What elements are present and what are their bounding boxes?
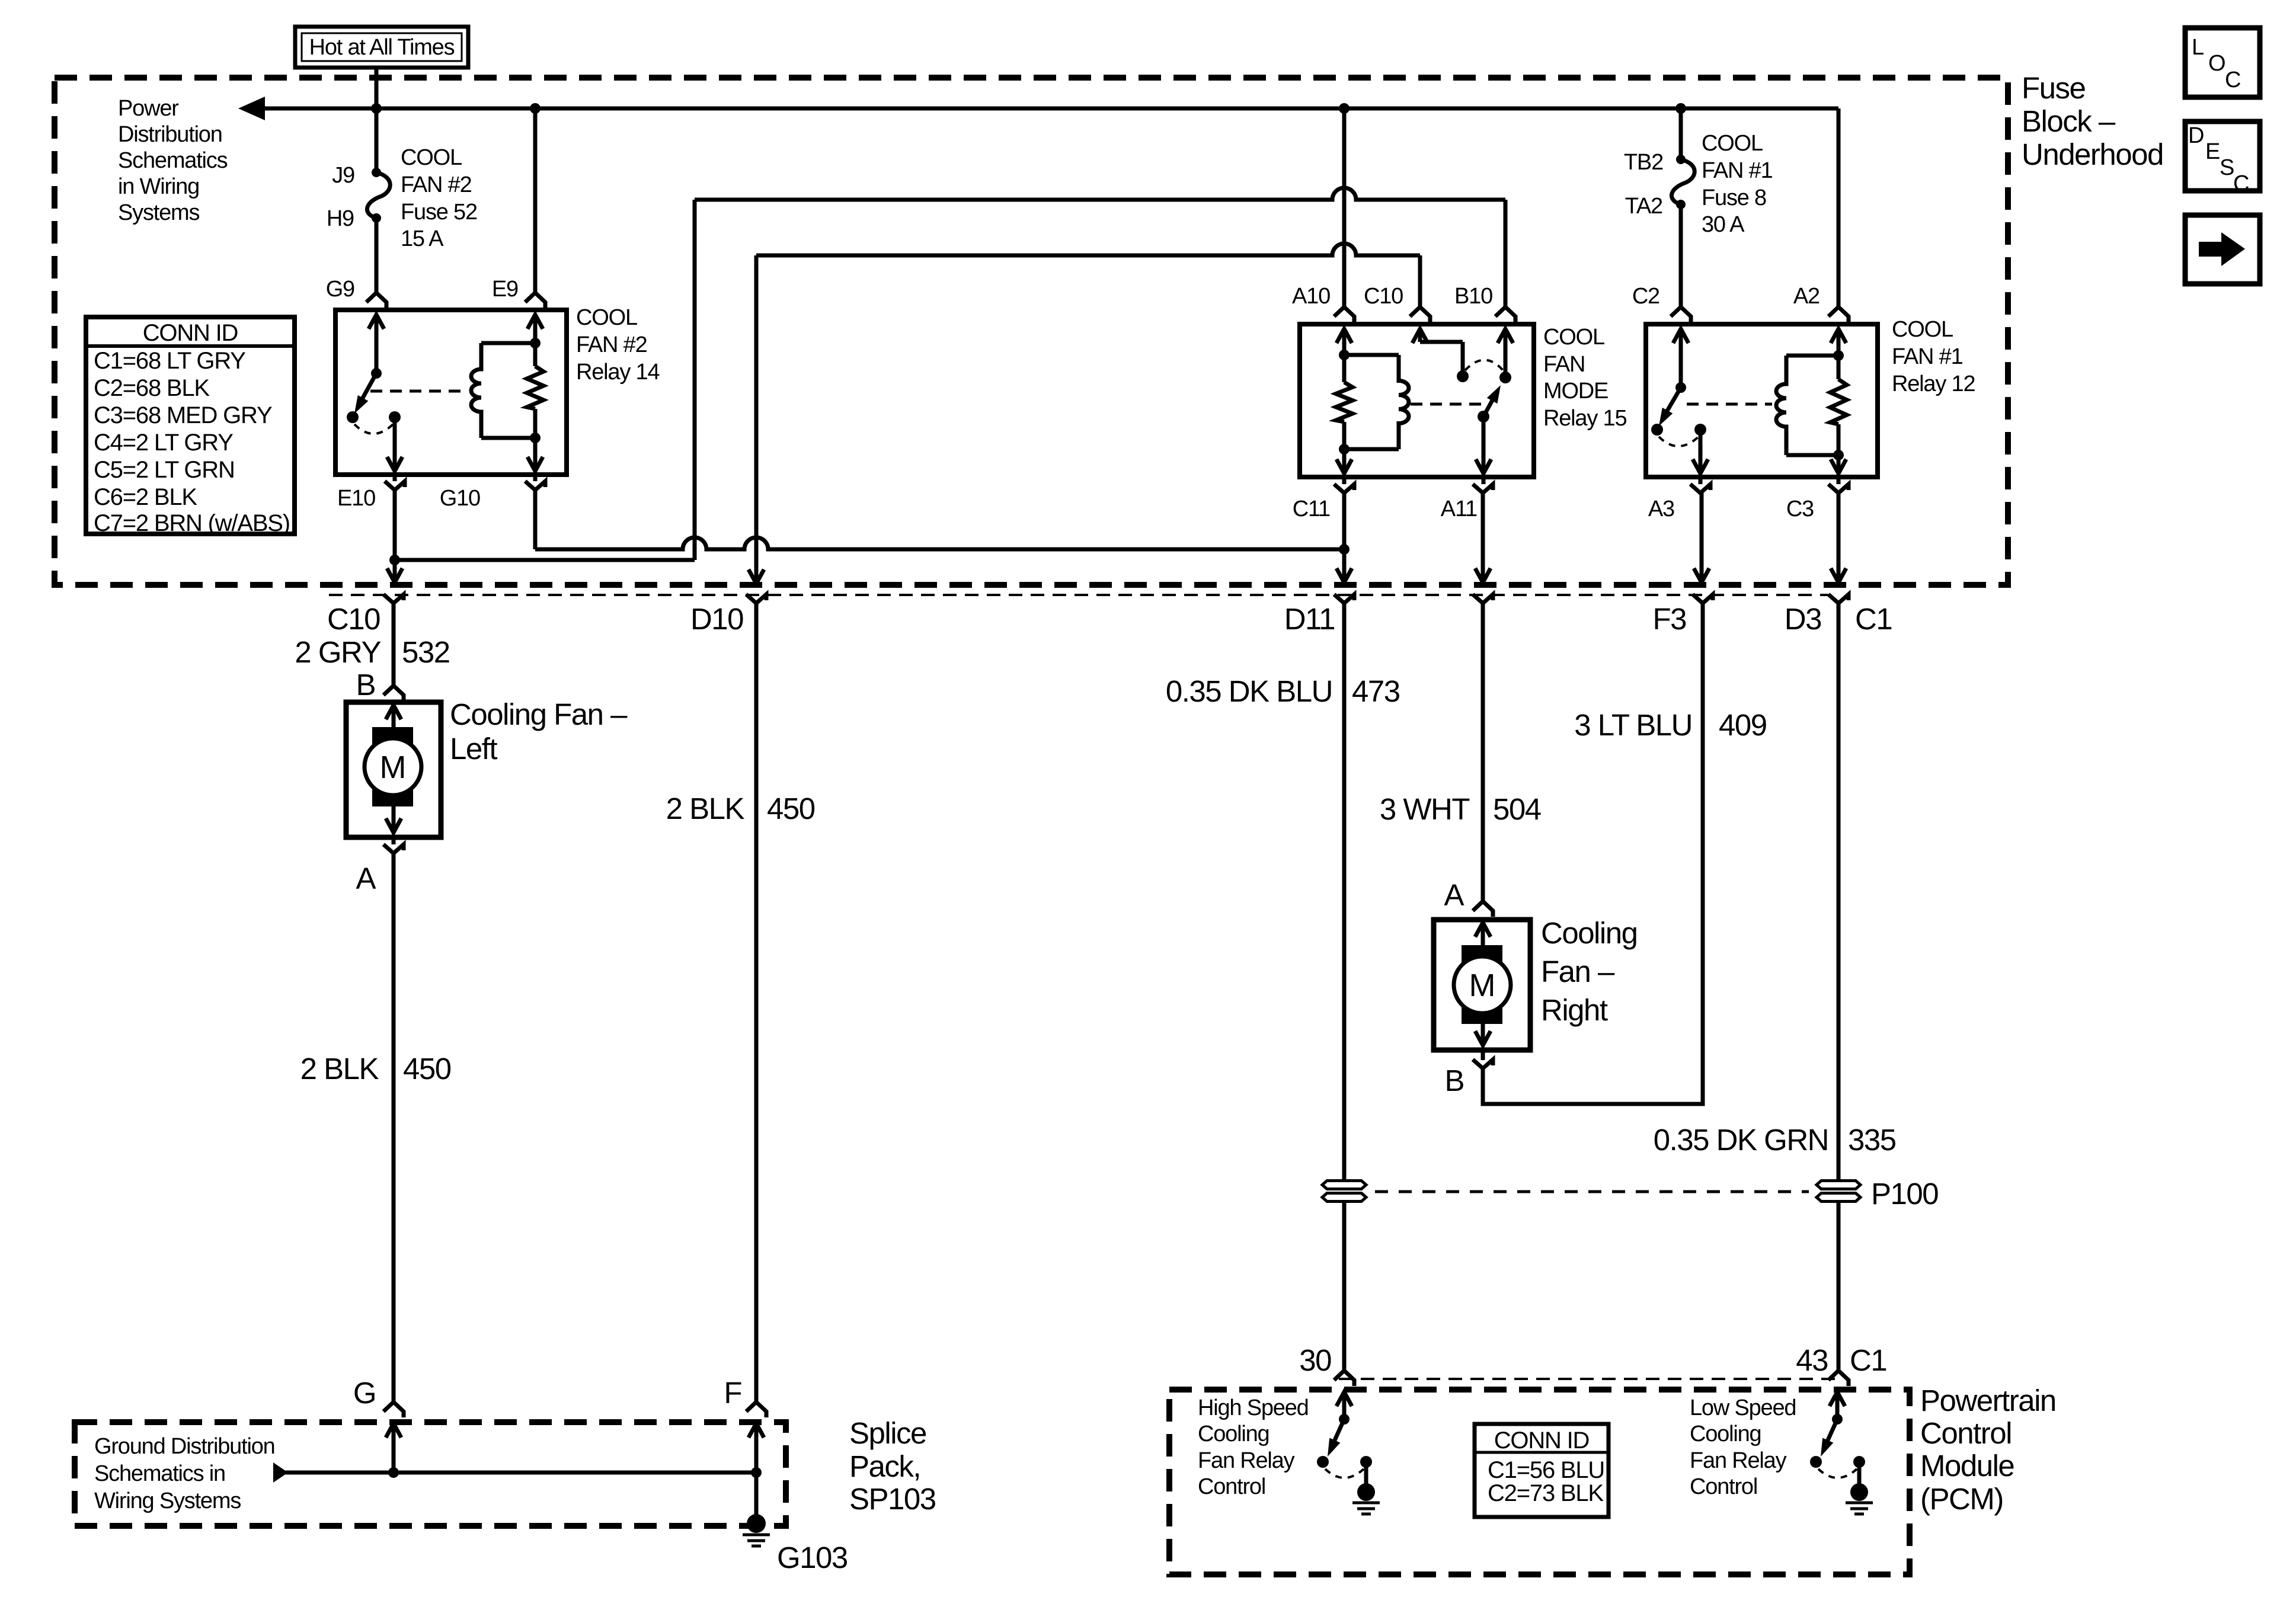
svg-text:Wiring Systems: Wiring Systems	[94, 1489, 241, 1513]
svg-text:C11: C11	[1293, 497, 1330, 521]
relay K15 coil bars	[1344, 353, 1399, 357]
svg-text:C1=68 LT GRY: C1=68 LT GRY	[94, 348, 245, 374]
pin G9 chevron	[366, 293, 386, 308]
pin A10 chevron	[1334, 307, 1354, 322]
pin D11 chevron	[1334, 594, 1354, 603]
svg-text:Distribution: Distribution	[118, 122, 222, 147]
wire: D3/C1 to P100	[1837, 603, 1841, 1181]
wire: rail drop to A2	[1837, 108, 1841, 306]
motor M2 body	[1454, 956, 1511, 1013]
relay K15 A10 arm	[1342, 333, 1347, 382]
pin A chevron (fan right)	[1473, 901, 1493, 917]
wire: fan right B loop to F3	[1483, 603, 1703, 1104]
svg-text:15 A: 15 A	[401, 226, 444, 251]
relay K12 switch common arm	[1679, 333, 1683, 388]
svg-text:G10: G10	[440, 486, 480, 511]
svg-text:Cooling: Cooling	[1541, 916, 1637, 950]
relay K15 switch throw arc	[1465, 360, 1503, 371]
PCM high speed ground	[1364, 1462, 1368, 1484]
wire: C3 drop	[1837, 493, 1841, 582]
svg-text:SP103: SP103	[849, 1482, 936, 1516]
relay K12 coil-switch link	[1687, 403, 1772, 406]
relay K12 C3 arm	[1837, 424, 1841, 470]
LOC reference box	[2185, 28, 2260, 97]
svg-text:FAN #2: FAN #2	[401, 172, 472, 197]
motor M1 brush blocks	[372, 727, 413, 745]
svg-text:A: A	[356, 862, 376, 895]
svg-text:Splice: Splice	[849, 1416, 926, 1450]
pin 30 chevron	[1334, 1371, 1354, 1386]
pin E9 chevron	[525, 293, 545, 308]
svg-text:M: M	[1469, 968, 1496, 1003]
CONN ID table box	[86, 317, 295, 534]
svg-text:Fan –: Fan –	[1541, 955, 1615, 988]
connector P100 (left half)	[1322, 1181, 1366, 1189]
relay K15 switch common arm	[1504, 333, 1508, 377]
motor M2 top lead	[1481, 925, 1485, 945]
wire: riser to B10 run	[693, 200, 697, 560]
svg-text:0.35 DK GRN: 0.35 DK GRN	[1654, 1123, 1828, 1157]
svg-text:Schematics in: Schematics in	[94, 1461, 225, 1486]
svg-text:G: G	[353, 1376, 376, 1410]
svg-text:MODE: MODE	[1543, 379, 1608, 404]
fuse F8 "COOL FAN #1 Fuse 8 30 A"	[1676, 155, 1686, 164]
relay K14 switch throw arc	[354, 424, 393, 434]
pin A2 chevron	[1828, 307, 1849, 322]
svg-text:COOL: COOL	[576, 305, 637, 330]
wire: C10 run east (hops A10 feed)	[756, 244, 1420, 255]
svg-text:D11: D11	[1284, 602, 1335, 636]
svg-text:Relay 14: Relay 14	[576, 360, 660, 385]
svg-text:A10: A10	[1292, 284, 1330, 309]
relay K12 box "COOL FAN #1 Relay 12"	[1646, 324, 1878, 477]
relay K12 switch arm to NC	[1662, 388, 1681, 419]
svg-text:High Speed: High Speed	[1198, 1395, 1309, 1420]
node: E9 branch junction	[530, 103, 541, 114]
wire: B10 drop	[1504, 200, 1508, 306]
motor M1 bottom lead	[392, 806, 396, 833]
node: splice F junction	[751, 1467, 762, 1478]
relay K15 A11 arm	[1482, 417, 1486, 470]
relay K12 A2 arm	[1837, 333, 1841, 379]
PCM conn id table	[1475, 1424, 1609, 1517]
svg-text:C7=2 BRN (w/ABS): C7=2 BRN (w/ABS)	[94, 510, 290, 536]
svg-text:COOL: COOL	[1892, 317, 1953, 342]
svg-text:3 WHT: 3 WHT	[1380, 792, 1470, 826]
relay K14 switch common arm	[375, 319, 379, 373]
relay K14 switch NO contact	[389, 411, 401, 423]
svg-text:Cooling: Cooling	[1690, 1422, 1761, 1446]
pin A11 harness chevron	[1473, 594, 1493, 603]
wire: C10 drop	[1418, 255, 1422, 306]
svg-text:J9: J9	[332, 163, 354, 188]
svg-text:Cooling Fan –: Cooling Fan –	[450, 697, 628, 731]
pin B chevron (fan right)	[1473, 1060, 1493, 1068]
wire: D11 to P100	[1342, 603, 1347, 1181]
relay K15 C11 arm	[1342, 422, 1347, 470]
pin C2 chevron	[1671, 307, 1691, 322]
PCM dashed box	[1169, 1390, 1910, 1574]
svg-text:O: O	[2208, 51, 2226, 76]
wire: splice bus	[273, 1471, 756, 1475]
pin D10 chevron	[746, 594, 766, 603]
wire: A10 feed (hops handled on runs)	[1342, 108, 1347, 306]
svg-text:2 GRY: 2 GRY	[295, 635, 380, 669]
svg-text:3 LT BLU: 3 LT BLU	[1574, 708, 1692, 742]
svg-text:C10: C10	[1364, 284, 1403, 309]
ground G103	[747, 1514, 766, 1533]
svg-text:Ground Distribution: Ground Distribution	[94, 1434, 275, 1459]
svg-text:Power: Power	[118, 96, 179, 121]
wire: B10 run east (hops A10 feed)	[695, 188, 1505, 200]
pin E10 chevron	[385, 481, 405, 490]
svg-text:A2: A2	[1793, 284, 1819, 309]
svg-text:C5=2 LT GRN: C5=2 LT GRN	[94, 457, 235, 483]
svg-text:30 A: 30 A	[1702, 212, 1745, 237]
svg-text:E: E	[2205, 139, 2220, 164]
svg-text:C10: C10	[327, 602, 380, 636]
svg-text:FAN: FAN	[1543, 352, 1585, 377]
svg-text:D: D	[2188, 123, 2204, 148]
svg-text:S: S	[2220, 155, 2234, 180]
wire: fuse 52 to G9	[375, 218, 379, 292]
svg-text:473: 473	[1352, 674, 1400, 708]
wire: P100 to PCM 43	[1837, 1202, 1841, 1371]
svg-text:FAN #1: FAN #1	[1702, 158, 1773, 183]
motor M2 brush blocks	[1462, 945, 1502, 964]
svg-text:D3: D3	[1785, 602, 1821, 636]
svg-text:M: M	[380, 750, 407, 785]
wire: rail to fuse 8	[1679, 108, 1683, 159]
wire: rail to fuse 52	[375, 108, 379, 172]
svg-text:COOL: COOL	[401, 145, 462, 170]
pin G10 chevron	[525, 481, 545, 490]
wire: E10 junction east run	[395, 558, 695, 562]
pin A11 chevron	[1473, 484, 1493, 493]
wire: rail to E9	[533, 108, 538, 292]
svg-text:G9: G9	[326, 277, 354, 302]
PCM low speed switch	[1835, 1394, 1840, 1419]
relay K15 box "COOL FAN MODE Relay 15"	[1300, 324, 1534, 477]
svg-text:P100: P100	[1871, 1177, 1938, 1211]
svg-text:FAN #2: FAN #2	[576, 332, 647, 357]
svg-text:B: B	[1444, 1064, 1464, 1097]
pin F chevron (splice)	[746, 1402, 766, 1417]
motor M1 box "Cooling Fan - Left"	[346, 702, 441, 837]
svg-text:A11: A11	[1441, 497, 1477, 521]
node: TB2 branch junction	[1675, 103, 1686, 114]
svg-text:CONN ID: CONN ID	[143, 320, 238, 346]
relay K12 output arm	[1699, 430, 1703, 470]
svg-text:TA2: TA2	[1625, 194, 1662, 219]
wire: G10 down/east run (hops risers)	[533, 490, 538, 549]
svg-text:30: 30	[1299, 1343, 1331, 1377]
pin A chevron (fan left)	[383, 844, 404, 853]
svg-text:Underhood: Underhood	[2022, 137, 2163, 171]
svg-text:C: C	[2233, 171, 2249, 196]
svg-text:Relay 12: Relay 12	[1892, 372, 1975, 396]
relay K15 C10 contact arm	[1418, 333, 1422, 342]
svg-text:0.35 DK BLU: 0.35 DK BLU	[1166, 674, 1332, 708]
svg-text:C6=2 BLK: C6=2 BLK	[94, 484, 197, 510]
pin F3 chevron	[1693, 594, 1713, 603]
svg-text:COOL: COOL	[1702, 131, 1763, 156]
svg-text:E10: E10	[337, 486, 375, 511]
svg-text:C2: C2	[1632, 284, 1659, 309]
relay K14 G10 arm	[533, 409, 538, 468]
wire: C10 to cooling fan left B	[392, 603, 396, 686]
relay K15 resistor	[1336, 382, 1352, 422]
wire: P100 to PCM 30	[1342, 1202, 1347, 1371]
motor M1 top lead	[392, 708, 396, 727]
pin C10 chevron	[383, 594, 404, 603]
svg-text:335: 335	[1848, 1123, 1896, 1157]
svg-text:in Wiring: in Wiring	[118, 174, 199, 199]
svg-text:450: 450	[403, 1052, 451, 1086]
svg-text:Relay 15: Relay 15	[1543, 406, 1626, 431]
wire: fan left A to splice G	[392, 853, 396, 1402]
pin B10 chevron	[1495, 307, 1515, 322]
thin dashed connector line	[329, 594, 1828, 596]
svg-text:A: A	[1444, 878, 1464, 912]
svg-text:C4=2 LT GRY: C4=2 LT GRY	[94, 430, 233, 456]
PCM thin dashed connector line	[1339, 1378, 1843, 1380]
relay K14 E9 arm	[533, 319, 538, 366]
pin B chevron (fan left)	[383, 686, 404, 701]
svg-text:C1=56 BLU: C1=56 BLU	[1488, 1457, 1604, 1483]
svg-text:H9: H9	[327, 206, 354, 231]
wire: D10 to splice F	[754, 603, 759, 1402]
svg-text:L: L	[2192, 35, 2204, 60]
relay K14 coil	[471, 343, 481, 438]
wire: hot-at-all-times feed drop	[375, 68, 379, 108]
svg-text:450: 450	[767, 792, 815, 825]
svg-text:COOL: COOL	[1543, 325, 1604, 350]
hot at all times power tag box	[295, 27, 468, 68]
svg-text:Low Speed: Low Speed	[1690, 1395, 1796, 1420]
relay K14 box "COOL FAN #2 Relay 14"	[335, 310, 567, 475]
wire: splice G arm	[392, 1425, 396, 1473]
DESC reference box	[2185, 121, 2260, 191]
svg-text:Cooling: Cooling	[1198, 1422, 1269, 1446]
connector P100 link	[1375, 1190, 1809, 1193]
svg-text:(PCM): (PCM)	[1920, 1482, 2003, 1516]
svg-text:Pack,: Pack,	[849, 1449, 920, 1483]
relay K14 coil bars	[481, 341, 535, 345]
node: hot feed junction	[371, 103, 382, 114]
relay K15 coil	[1399, 355, 1409, 449]
pin A3 chevron	[1690, 484, 1710, 493]
svg-text:Systems: Systems	[118, 200, 199, 225]
wire: splice to G103	[754, 1473, 759, 1517]
svg-text:2 BLK: 2 BLK	[666, 792, 745, 825]
wire: E10 junction to border arrow	[393, 560, 397, 582]
node: G10 run to D11 wire	[1339, 544, 1350, 555]
forward arrow box	[2185, 215, 2260, 284]
svg-text:Hot at All Times: Hot at All Times	[309, 35, 455, 60]
svg-text:2 BLK: 2 BLK	[300, 1052, 379, 1086]
svg-text:D10: D10	[690, 602, 743, 636]
svg-text:Schematics: Schematics	[118, 148, 228, 173]
relay K12 coil bars	[1786, 354, 1838, 358]
pin C3 chevron	[1828, 484, 1849, 493]
wire: D10 riser	[754, 255, 759, 584]
svg-text:A3: A3	[1648, 497, 1674, 521]
pin 43 chevron	[1828, 1371, 1849, 1386]
svg-text:F: F	[724, 1376, 741, 1410]
svg-text:Fan Relay: Fan Relay	[1198, 1448, 1295, 1473]
svg-text:CONN ID: CONN ID	[1494, 1427, 1590, 1454]
relay K14 switch arm to NC	[358, 373, 376, 406]
relay K15 coil-switch link	[1411, 403, 1489, 406]
svg-text:C: C	[2225, 68, 2241, 92]
wire: A3/F3 drop	[1700, 493, 1704, 582]
svg-text:532: 532	[402, 635, 450, 669]
power rail arrowhead (to power distribution)	[238, 97, 265, 120]
svg-text:409: 409	[1719, 708, 1767, 742]
node: A10 branch junction	[1339, 103, 1350, 114]
svg-text:C1: C1	[1855, 602, 1892, 636]
relay K14 resistor	[527, 366, 543, 409]
svg-text:43: 43	[1796, 1343, 1828, 1377]
wire: fuse 8 to C2	[1679, 204, 1683, 306]
svg-text:C1: C1	[1850, 1343, 1886, 1377]
svg-text:Control: Control	[1690, 1474, 1757, 1499]
pin C10 chevron (relay 15)	[1410, 307, 1430, 322]
PCM low speed ground	[1857, 1462, 1862, 1484]
relay K12 switch NO contact	[1694, 424, 1706, 436]
relay K12 resistor	[1830, 379, 1847, 424]
pin G chevron (splice)	[383, 1402, 404, 1417]
svg-text:E9: E9	[492, 277, 518, 302]
svg-text:Module: Module	[1920, 1449, 2014, 1483]
wire: C11/D11 drop	[1342, 493, 1347, 582]
svg-text:C3: C3	[1786, 497, 1814, 521]
svg-text:Fuse 8: Fuse 8	[1702, 185, 1766, 210]
svg-text:Control: Control	[1920, 1416, 2012, 1450]
svg-text:Fuse: Fuse	[2022, 71, 2086, 105]
motor M1 body	[364, 738, 421, 795]
svg-text:C2=73 BLK: C2=73 BLK	[1488, 1480, 1604, 1506]
relay K14 output arm	[393, 417, 397, 468]
fuse F52 "COOL FAN #2 Fuse 52 15 A"	[372, 168, 381, 177]
svg-text:C3=68 MED GRY: C3=68 MED GRY	[94, 402, 272, 428]
svg-text:Powertrain: Powertrain	[1920, 1384, 2056, 1417]
motor M2 bottom lead	[1481, 1024, 1485, 1045]
splice pack SP103 dashed box	[75, 1422, 786, 1526]
pin D3/C1 chevron	[1828, 594, 1849, 603]
motor M2 box "Cooling Fan - Right"	[1434, 920, 1530, 1050]
relay K12 coil	[1776, 356, 1786, 455]
node: splice G junction	[388, 1467, 399, 1478]
svg-text:B: B	[356, 668, 375, 702]
svg-text:Block –: Block –	[2022, 104, 2116, 138]
svg-text:FAN #1: FAN #1	[1892, 344, 1963, 369]
svg-text:F3: F3	[1652, 602, 1686, 636]
svg-text:Right: Right	[1541, 993, 1608, 1027]
svg-text:B10: B10	[1454, 284, 1492, 309]
PCM high speed switch	[1342, 1394, 1347, 1419]
relay K12 switch throw arc	[1659, 437, 1699, 446]
wire: A11 drop	[1481, 493, 1485, 582]
wire: A11 to fan right A	[1481, 603, 1485, 901]
wire: main power rail	[261, 107, 1838, 111]
svg-text:504: 504	[1493, 792, 1541, 826]
svg-text:Left: Left	[450, 732, 497, 766]
splice feed arrowhead	[273, 1462, 288, 1483]
relay K15 switch arm	[1483, 392, 1497, 417]
pin C11 chevron	[1334, 484, 1354, 493]
wire: E10 down to junction	[393, 490, 397, 560]
svg-text:TB2: TB2	[1624, 150, 1663, 175]
svg-text:Fan Relay: Fan Relay	[1690, 1448, 1787, 1473]
fuse block underhood dashed boundary box	[55, 78, 2008, 585]
svg-text:C2=68 BLK: C2=68 BLK	[94, 375, 210, 401]
svg-text:Fuse 52: Fuse 52	[401, 200, 477, 225]
connector P100 (right half)	[1817, 1181, 1860, 1189]
relay K14 coil-switch link	[370, 390, 462, 393]
svg-text:Control: Control	[1198, 1474, 1265, 1499]
node: E10/B10 junction	[389, 555, 400, 565]
wire: splice F arm	[754, 1425, 759, 1473]
svg-text:G103: G103	[777, 1541, 848, 1574]
